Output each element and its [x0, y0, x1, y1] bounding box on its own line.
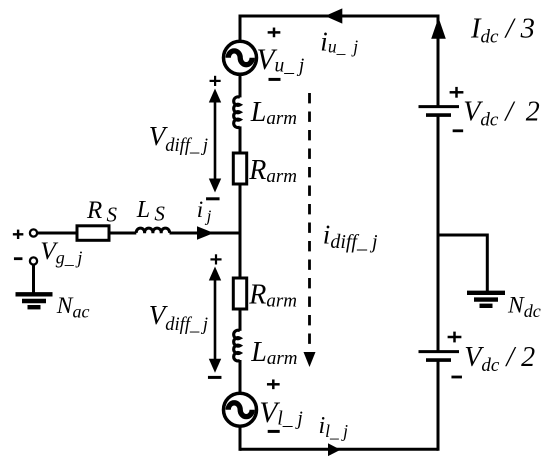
wire right DC branch middle — [437, 116, 440, 352]
wire Ls to node j — [170, 232, 241, 235]
label - of upper V_diff_j — [206, 197, 220, 200]
ground symbol N_dc — [467, 291, 505, 295]
wire right DC branch upper — [437, 15, 440, 107]
battery V_dc/2 lower — [419, 350, 460, 353]
wire node to Ndc ground — [438, 235, 487, 293]
label + of V_u_j — [268, 28, 281, 38]
wire bottom rail — [240, 448, 438, 451]
terminal circle lower of Vg_j — [30, 257, 37, 264]
label - of lower V_diff_j — [208, 376, 222, 379]
arrowhead current I_dc/3 — [431, 18, 446, 39]
label + of lower battery — [448, 332, 462, 343]
label - of V_u_j — [269, 78, 281, 81]
resistor R_arm lower — [233, 278, 246, 309]
svg-text:il_ j: il_ j — [319, 413, 349, 441]
svg-text:Larm: Larm — [250, 97, 297, 129]
resistor R_S — [77, 226, 109, 241]
wire source Vl_j to bottom rail — [239, 426, 242, 451]
label + of upper V_diff_j — [210, 76, 221, 86]
arrow V_diff_j upper — [214, 95, 217, 186]
inductor L_S coil — [136, 228, 169, 233]
svg-text:R S: R S — [86, 197, 117, 227]
label - of V_l_j — [268, 430, 280, 433]
inductor L_arm upper coil — [234, 97, 240, 128]
terminal circle upper of Vg_j — [30, 229, 37, 236]
svg-text:Rarm: Rarm — [248, 280, 297, 312]
wire source Vu_j to Larm — [239, 76, 242, 98]
arrow V_diff_j lower — [214, 273, 217, 366]
label - of upper battery — [453, 129, 464, 132]
wire AC terminal to Rs — [37, 232, 77, 235]
ac source V_u_j circle — [224, 41, 257, 74]
battery V_dc/2 upper — [419, 105, 460, 108]
terminal - of AC grid source — [14, 257, 23, 260]
svg-text:i j: i j — [197, 197, 212, 226]
ground symbol N_ac — [16, 292, 53, 296]
svg-text:Vl_ j: Vl_ j — [259, 397, 303, 430]
svg-text:L S: L S — [136, 197, 166, 226]
ac source V_l_j circle — [224, 393, 257, 426]
svg-text:Idc / 3: Idc / 3 — [470, 14, 535, 48]
resistor R_arm upper — [233, 153, 246, 184]
wire node j to lower Rarm — [239, 233, 242, 278]
svg-text:Vdc / 2: Vdc / 2 — [463, 97, 539, 131]
wire top rail from upper arm to DC link — [240, 15, 438, 18]
label - of lower battery — [451, 376, 462, 379]
arrowhead current i_l_j on bottom rail — [328, 443, 341, 456]
svg-text:Vdc / 2: Vdc / 2 — [464, 342, 535, 376]
svg-text:iu_ j: iu_ j — [320, 26, 358, 56]
wire Larm to Rarm upper — [239, 126, 242, 153]
wire Vg terminal to Nac ground — [32, 265, 35, 293]
arrowhead current i_u_j on top rail — [325, 8, 342, 23]
label + of lower V_diff_j — [210, 254, 221, 264]
wire upper arm to node j — [239, 184, 242, 233]
wire upper-arm top — [239, 15, 242, 42]
svg-text:Vdiff_ j: Vdiff_ j — [149, 121, 208, 156]
terminal + of AC grid source — [13, 230, 24, 239]
arrowhead current i_j — [197, 226, 214, 239]
svg-text:Nac: Nac — [56, 293, 90, 322]
svg-text:Vdiff_ j: Vdiff_ j — [149, 300, 208, 335]
svg-text:Rarm: Rarm — [248, 155, 297, 187]
wire right DC branch lower — [437, 360, 440, 451]
label + of V_l_j — [267, 379, 280, 389]
wire Larm to source Vl_j — [239, 360, 242, 393]
label + of upper battery — [450, 87, 464, 98]
svg-text:Ndc: Ndc — [507, 293, 541, 322]
svg-text:Larm: Larm — [250, 337, 297, 369]
dashed arrow i_diff_j — [308, 93, 311, 350]
inductor L_arm lower coil — [234, 330, 240, 361]
svg-text:idiff_ j: idiff_ j — [323, 220, 378, 254]
wire Rs to Ls — [109, 232, 136, 235]
wire Rarm to Larm lower — [239, 309, 242, 331]
svg-text:Vu_ j: Vu_ j — [257, 44, 305, 77]
